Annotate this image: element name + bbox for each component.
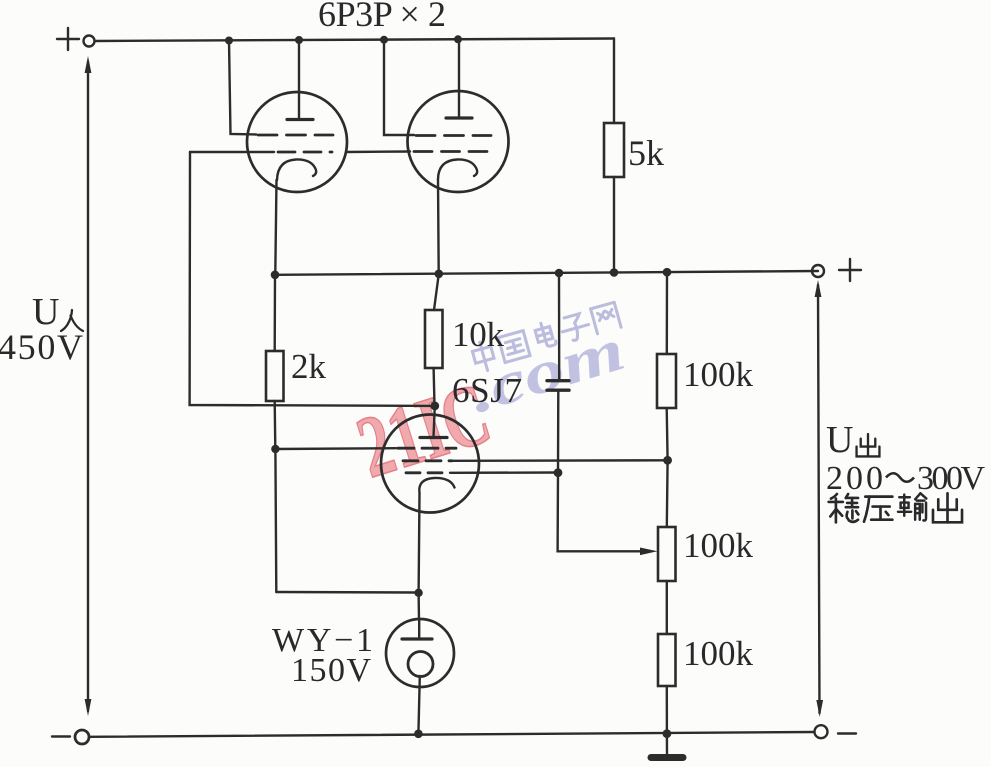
bus node dot (V2 cathode / 10k) [435, 270, 444, 279]
ground stub [666, 734, 668, 756]
V1 cathode lead down to output bus [275, 180, 276, 273]
output terminal - (bottom right) [815, 725, 828, 738]
label chu (out) glyph [933, 493, 962, 522]
V3 cathode arc [419, 478, 454, 493]
WY-1 bottom lead to rail [418, 676, 419, 734]
WY-1 anode lead inside [418, 620, 420, 638]
V3 screen grid wire to divider node [452, 459, 668, 462]
wire: bottom rail [90, 732, 814, 737]
V2 cathode arc [438, 159, 477, 179]
output terminal + (right) [812, 265, 824, 277]
V3 anode plate bar [420, 436, 447, 439]
wang [591, 302, 621, 333]
label subscript ru (enter) glyph [61, 310, 83, 331]
svg-text:300V: 300V [917, 460, 985, 497]
resistor 10k top lead [434, 274, 439, 310]
resistor 100k (bottom) body [658, 634, 676, 686]
node dot (divider / V3 screen) [663, 456, 672, 465]
node dot on bottom rail [663, 729, 672, 738]
node dot on rail (V1 anode) [295, 36, 303, 44]
zi [559, 312, 592, 343]
feedback wire from 6P3P grids down [190, 152, 435, 406]
resistor 5k bottom lead [613, 177, 615, 273]
V3 suppressor grid dashes [398, 447, 456, 450]
lead to potentiometer [666, 460, 669, 527]
svg-text:6P3P × 2: 6P3P × 2 [318, 0, 446, 34]
node dot on rail (V2 screen tap) [380, 36, 388, 44]
V3 cathode lead down [417, 493, 420, 593]
V1 cathode arc [277, 159, 316, 180]
tube V2 (6P3P) envelope [408, 91, 509, 192]
bus node dot (V1 cathode / 2k) [271, 271, 280, 280]
resistor 2k bottom lead [274, 401, 277, 449]
bus node dot (100k chain) [663, 268, 672, 277]
plus sign at output [839, 259, 861, 281]
V1 anode lead [298, 40, 300, 119]
zhong [471, 340, 497, 373]
guo [498, 331, 530, 363]
wire from node down left side [274, 449, 277, 592]
node dot (2k / V3 suppressor grid) [271, 445, 279, 453]
svg-text:5k: 5k [628, 133, 664, 173]
node dot on rail (V2 anode) [454, 35, 462, 43]
V1 screen grid dashes [258, 134, 333, 137]
minus sign bottom right [838, 732, 856, 734]
svg-text:U: U [826, 419, 853, 461]
wire between V1 and V2 grids [346, 150, 410, 153]
label shu (transmit) glyph [898, 493, 926, 520]
capacitor C top plate [547, 379, 569, 382]
node dot (V3 cathode junction) [414, 589, 422, 597]
resistor 5k lead from rail [613, 39, 615, 124]
capacitor C top lead [558, 273, 561, 380]
minus sign bottom left [52, 735, 70, 737]
right dimension arrow line (U out measurement) [815, 280, 824, 717]
left dimension arrow line (U in measurement) [85, 56, 92, 716]
input terminal + (top left) [84, 36, 95, 47]
V2 screen grid dashes [416, 134, 491, 137]
100k chain top lead [666, 272, 669, 354]
capacitor C bottom lead [557, 390, 560, 472]
V2 anode lead [458, 39, 460, 117]
V1 anode plate bar [287, 118, 313, 121]
V2 anode plate bar [446, 116, 472, 119]
WATERMARK [347, 302, 632, 497]
wire: top supply rail [95, 39, 614, 42]
bus node dot (5k) [610, 268, 619, 277]
V3 suppressor grid wire to left node [275, 447, 396, 450]
lead to bottom 100k [666, 581, 668, 634]
glow tube WY-1 envelope [386, 619, 454, 687]
V2 screen grid wire from rail [384, 40, 414, 135]
resistor 2k top lead [274, 275, 277, 351]
plus sign at input [57, 28, 79, 50]
svg-text:450V: 450V [0, 327, 83, 367]
resistor 10k bottom lead [432, 368, 435, 406]
wiper wire down and right [558, 473, 649, 552]
WY-1 cathode small circle [408, 652, 433, 677]
svg-text:6SJ7: 6SJ7 [452, 371, 522, 410]
label ya (pressure) glyph [864, 497, 892, 522]
svg-text:100k: 100k [683, 526, 754, 565]
dian [534, 321, 557, 349]
node dot (grid / cap / wiper) [554, 468, 563, 477]
glow tube WY-1 lead from cathode node [417, 593, 420, 620]
V3 screen grid dashes [403, 459, 452, 462]
capacitor C bottom plate [547, 389, 569, 392]
V2 control grid dashes [414, 150, 496, 153]
resistor 100k (potentiometer) body [658, 527, 676, 581]
V3 control grid dashes [406, 471, 450, 474]
tube V3 (6SJ7) envelope [381, 415, 479, 513]
label wen (stable) glyph [829, 494, 859, 522]
resistor 10k body [425, 310, 443, 368]
V1 control grid dashes [278, 151, 332, 154]
bottom 100k lower lead [666, 686, 669, 734]
WY-1 anode bar [402, 637, 432, 640]
bus node dot (capacitor tap) [555, 269, 564, 278]
svg-text:100k: 100k [683, 634, 754, 673]
shared control-grid wire of V1/V2 (solid outside tubes) [190, 151, 274, 153]
node dot (10k / V3 anode / feedback) [430, 402, 439, 411]
label subscript chu (out) glyph [857, 434, 880, 456]
svg-text:200: 200 [826, 460, 883, 497]
V3 control grid wire to capacitor node [450, 471, 558, 474]
node dot on rail (V1 screen tap) [225, 37, 233, 45]
tube V1 (6P3P) envelope [247, 92, 347, 192]
V1 screen grid wire from rail [229, 41, 256, 135]
wiper arrowhead into potentiometer [640, 548, 658, 556]
node dot (WY-1 on bottom rail) [414, 730, 423, 739]
wire: output bus [275, 271, 818, 275]
svg-text:2k: 2k [291, 347, 327, 386]
V2 cathode lead down to output bus [437, 179, 440, 274]
V3 anode lead [434, 406, 435, 437]
watermark zhong-guo-dian-zi-wang (blue) [470, 302, 623, 373]
resistor 2k body [266, 351, 284, 401]
wire across to V3 cathode [276, 591, 418, 594]
svg-text:150V: 150V [291, 652, 371, 689]
resistor 100k (top) body [657, 354, 676, 408]
output terminal - (bottom left) [75, 730, 89, 744]
svg-text:10k: 10k [452, 315, 505, 354]
ground bar [651, 754, 683, 761]
resistor 5k body [604, 123, 624, 177]
lead to divider node [666, 408, 669, 460]
svg-text:100k: 100k [683, 355, 754, 394]
